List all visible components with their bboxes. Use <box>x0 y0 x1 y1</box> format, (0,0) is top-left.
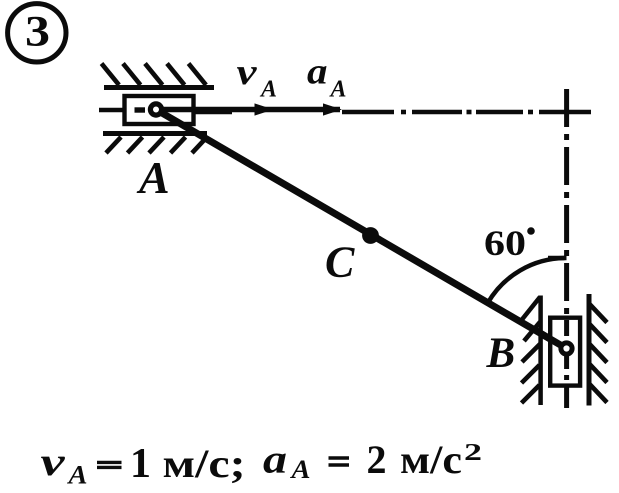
svg-text:60: 60 <box>484 223 526 263</box>
svg-text:1: 1 <box>130 441 151 487</box>
vertical centerline dashes inside slider B <box>564 320 569 383</box>
arrowhead aA <box>323 103 342 115</box>
svg-text:C: C <box>325 238 355 287</box>
formula line <box>41 437 483 490</box>
left guide wall at B <box>538 296 543 406</box>
svg-text:A: A <box>259 77 277 103</box>
svg-text:2: 2 <box>464 440 482 466</box>
svg-text:м/с;: м/с; <box>163 441 246 486</box>
svg-text:м/с: м/с <box>400 437 462 482</box>
pin A <box>150 104 161 115</box>
svg-text:B: B <box>486 330 516 377</box>
right wall hatching at B <box>590 304 608 403</box>
arc top tick to centerline <box>548 256 567 261</box>
svg-text:A: A <box>329 77 347 103</box>
right guide wall at B <box>587 294 592 406</box>
svg-text:3: 3 <box>25 9 50 56</box>
upper wall hatching <box>102 64 207 86</box>
slider A block <box>125 96 194 124</box>
point C dot <box>362 227 379 244</box>
centerline short dash inside slider A <box>135 107 146 112</box>
svg-text:v: v <box>41 439 67 484</box>
label aA <box>307 52 347 103</box>
upper guide wall line at A <box>104 85 214 90</box>
velocity/acceleration arrow line <box>162 107 340 113</box>
rod end into pin B <box>540 333 567 349</box>
pin B <box>561 343 572 354</box>
slider B block <box>550 318 580 386</box>
left wall hatching at B <box>520 297 540 403</box>
rod AB <box>156 110 567 349</box>
arrowhead vA <box>255 103 274 115</box>
svg-text:v: v <box>237 52 258 93</box>
lower wall hatching <box>106 137 207 153</box>
svg-text:A: A <box>289 455 310 484</box>
lower guide wall line at A <box>103 131 207 136</box>
horizontal centerline left segment <box>99 108 131 113</box>
svg-text:A: A <box>136 152 170 203</box>
horizontal dash-dot centerline to the right <box>342 110 591 115</box>
svg-text:a: a <box>307 52 328 93</box>
svg-text:2: 2 <box>367 437 387 482</box>
short centerline stub right of slider A <box>194 110 232 115</box>
label 60deg <box>484 223 535 263</box>
label vA <box>237 52 278 103</box>
vertical dash-dot centerline at B <box>564 89 569 408</box>
angle arc 60 degrees <box>488 258 565 303</box>
problem number badge circle 3 <box>8 4 66 62</box>
svg-text:a: a <box>263 437 287 482</box>
svg-text:A: A <box>66 461 87 490</box>
